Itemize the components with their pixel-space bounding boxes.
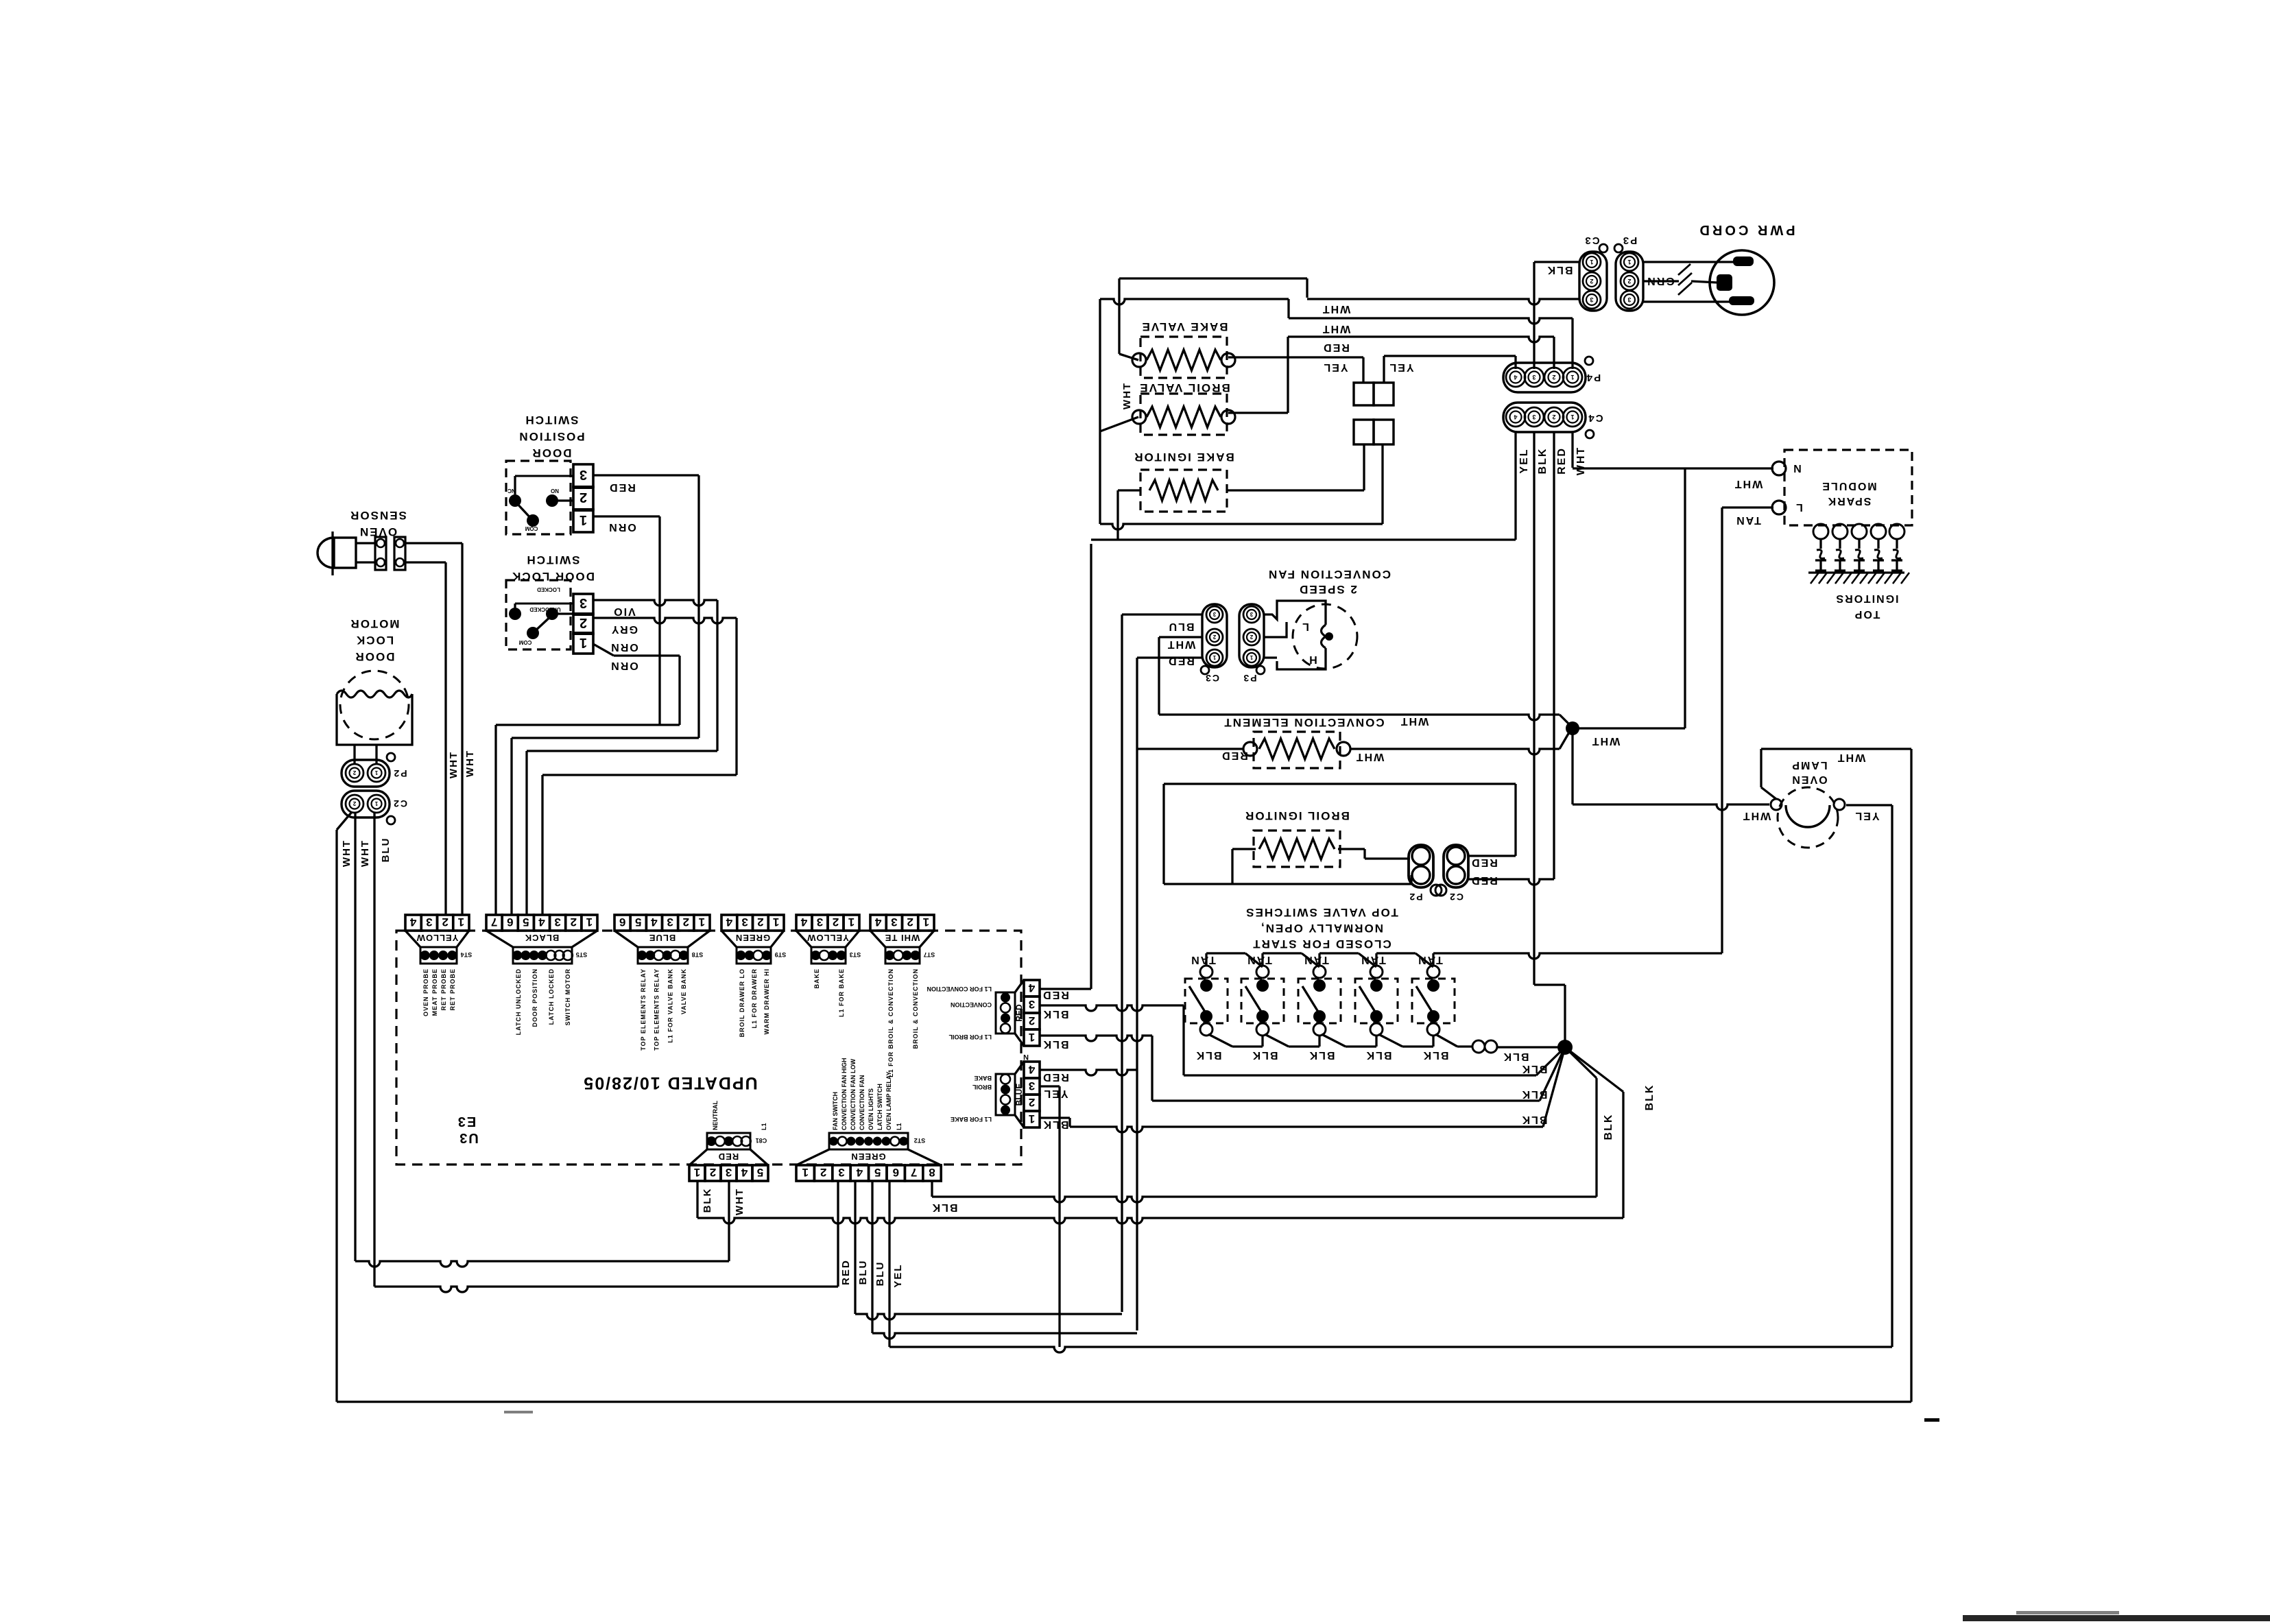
svg-text:TAN: TAN [1190, 954, 1216, 966]
label BLK side1 [1042, 1008, 1069, 1020]
svg-text:3: 3 [1212, 611, 1216, 617]
label RED elem [1221, 750, 1248, 761]
svg-text:GREEN: GREEN [735, 933, 770, 943]
label YEL left [1322, 361, 1348, 373]
svg-text:RED: RED [1042, 989, 1069, 1001]
svg-text:2: 2 [683, 916, 689, 929]
svg-text:2: 2 [1590, 278, 1593, 285]
wire BLUE side pin1 BLK [1040, 1116, 1070, 1119]
node BLK junction [1557, 1040, 1573, 1055]
svg-text:L1 FOR BAKE: L1 FOR BAKE [951, 1116, 992, 1123]
label L [1795, 501, 1803, 513]
label BLK column [1537, 448, 1549, 475]
label YEL side [1042, 1088, 1068, 1099]
label CONVECTION FAN [1267, 568, 1391, 581]
svg-text:RED: RED [1167, 655, 1195, 667]
wire WHT column to spark N [1571, 432, 1573, 468]
label TAN 2 [1246, 954, 1272, 966]
svg-text:5: 5 [757, 1166, 763, 1179]
svg-text:1: 1 [1570, 414, 1574, 420]
label RED C2 top [1470, 857, 1498, 868]
wire GREEN pin8 BLK [931, 1181, 933, 1197]
svg-text:2: 2 [442, 916, 448, 929]
svg-text:MODULE: MODULE [1821, 480, 1876, 492]
label ORN door2a [610, 641, 638, 653]
svg-text:TOP VALVE SWITCHES: TOP VALVE SWITCHES [1245, 906, 1398, 919]
svg-text:3: 3 [1029, 1079, 1035, 1092]
svg-text:LATCH UNLOCKED: LATCH UNLOCKED [515, 968, 522, 1035]
svg-text:DOOR: DOOR [531, 446, 572, 459]
resistor bake ignitor [1149, 480, 1218, 501]
svg-text:ST2: ST2 [914, 1137, 926, 1144]
label BLK j2 [1521, 1088, 1548, 1100]
wire WHT bus to C2 [355, 1261, 729, 1267]
wire RED bus [374, 1287, 838, 1292]
label BROIL VALVE [1138, 381, 1230, 394]
svg-text:WHT: WHT [341, 839, 353, 867]
label RED side2 [1042, 1071, 1069, 1083]
wire WHT bus B (broil valve to P4 pin1) [1099, 299, 1101, 524]
resistor broil ignitor [1259, 839, 1335, 859]
scan artifact dash2 [504, 1411, 533, 1413]
svg-text:GRN: GRN [1646, 275, 1675, 287]
svg-text:1: 1 [580, 512, 587, 527]
svg-text:P4: P4 [1586, 372, 1601, 383]
svg-text:1: 1 [802, 1166, 808, 1179]
svg-text:3: 3 [426, 916, 432, 929]
svg-text:2: 2 [757, 916, 763, 929]
svg-text:U3: U3 [458, 1130, 479, 1145]
door position switch dashed box [506, 461, 571, 534]
svg-text:BLK: BLK [1365, 1049, 1392, 1061]
wire junction BLK 3 [1543, 1047, 1565, 1127]
svg-text:ST4: ST4 [461, 951, 473, 958]
wire C2 BLU [373, 813, 375, 1287]
svg-text:YEL: YEL [1518, 448, 1530, 473]
wire door lock ORN [593, 644, 614, 656]
wire spark riser down [1684, 468, 1686, 728]
svg-text:SENSOR: SENSOR [349, 509, 407, 522]
label C4 [1587, 412, 1603, 424]
svg-text:BLK: BLK [1537, 448, 1549, 475]
wire bottom chain 4 [1378, 1034, 1402, 1047]
svg-text:YELLOW: YELLOW [807, 933, 849, 943]
label VIO [612, 606, 636, 617]
svg-text:N: N [1792, 462, 1802, 474]
wire broil loop bottom [1164, 883, 1411, 885]
wire broil resistor right [1338, 848, 1365, 850]
top valve switch 2 [1241, 979, 1284, 1023]
svg-text:2: 2 [580, 490, 587, 505]
wire C2 WHT 1 [337, 812, 352, 830]
gas valve BAKE dashed box [1140, 337, 1227, 378]
svg-text:RET PROBE: RET PROBE [449, 968, 456, 1011]
wire lamp YEL [1846, 804, 1892, 806]
svg-text:GREEN: GREEN [850, 1151, 885, 1162]
svg-text:BLK: BLK [1503, 1051, 1529, 1062]
wire C3 pin1 BLK to P4 pin3 [1534, 261, 1580, 263]
label BLK side2 [1042, 1038, 1069, 1050]
label WHT fan [1167, 638, 1195, 650]
label BLK [1546, 264, 1573, 276]
svg-text:BLK: BLK [1195, 1049, 1222, 1061]
svg-text:WHT: WHT [1742, 810, 1771, 822]
wire TAN bus [1433, 953, 1722, 959]
svg-text:DOOR: DOOR [355, 650, 395, 663]
connector C4 [1503, 403, 1586, 432]
board connector RED side [1024, 980, 1040, 996]
label WHT vertical at valves [1121, 382, 1133, 409]
resistor broil valve [1147, 407, 1221, 427]
svg-text:C3: C3 [1204, 673, 1219, 684]
svg-text:8: 8 [929, 1166, 935, 1179]
svg-text:PWR CORD: PWR CORD [1697, 222, 1795, 237]
wire BLUE side pin4 RED [1040, 1070, 1137, 1075]
svg-text:4: 4 [409, 916, 416, 929]
svg-text:BLK: BLK [1521, 1063, 1548, 1075]
connector P2 (broil) [1409, 845, 1433, 887]
label E3 U3 [457, 1114, 476, 1129]
wire fan BLU [1122, 613, 1202, 615]
svg-text:C2: C2 [392, 798, 407, 809]
wire sensor WHT 1 [405, 542, 462, 544]
label BLK side3 [1042, 1119, 1069, 1130]
svg-text:BAKE: BAKE [813, 968, 820, 989]
label WHT sensor2 [448, 751, 459, 778]
top ignitor spark gaps [1813, 524, 1828, 539]
svg-text:BLUE: BLUE [649, 933, 676, 943]
svg-text:WHT: WHT [1400, 715, 1429, 727]
wire broil valve right [1228, 411, 1288, 414]
svg-text:NO: NO [551, 488, 559, 494]
wire GREEN pin4 BLU [854, 1181, 856, 1314]
svg-text:NC: NC [507, 488, 516, 494]
label YEL col green [892, 1263, 904, 1287]
label BLU col green2 [874, 1261, 886, 1287]
svg-text:4: 4 [741, 1166, 748, 1179]
svg-text:RED: RED [1556, 447, 1568, 475]
oven sensor probe [331, 532, 333, 575]
svg-text:4: 4 [800, 916, 807, 929]
label OVEN SENSOR [349, 509, 407, 522]
svg-text:3: 3 [891, 916, 897, 929]
label BAKE IGNITOR [1133, 451, 1234, 464]
oven sensor pins [375, 537, 386, 570]
label N [1792, 462, 1802, 474]
svg-text:2: 2 [1029, 1014, 1035, 1027]
svg-text:3: 3 [1532, 374, 1536, 381]
svg-text:2: 2 [1212, 634, 1216, 640]
svg-text:BROIL IGNITOR: BROIL IGNITOR [1244, 809, 1350, 822]
board connector YELLOW 2 [796, 915, 812, 931]
svg-text:RED: RED [1322, 342, 1350, 353]
label YEL column [1518, 448, 1530, 473]
label 2 SPEED [1298, 583, 1357, 596]
svg-text:5: 5 [635, 916, 641, 929]
svg-text:RED: RED [608, 481, 636, 493]
svg-text:3: 3 [667, 916, 673, 929]
svg-text:WARM DRAWER HI: WARM DRAWER HI [763, 968, 770, 1035]
wire C2 WHT 2 [354, 813, 356, 1261]
label WHT sensor1 [464, 750, 476, 777]
label DOOR POSITION SWITCH [524, 414, 578, 427]
svg-text:2: 2 [820, 1166, 826, 1179]
svg-text:TOP ELEMENTS RELAY: TOP ELEMENTS RELAY [640, 968, 647, 1051]
wire junction to lamp [1571, 728, 1573, 804]
wire fan RED [1137, 656, 1202, 658]
svg-text:2: 2 [1627, 278, 1631, 285]
svg-text:CONVECTION: CONVECTION [951, 1001, 992, 1008]
svg-text:3: 3 [838, 1166, 844, 1179]
svg-text:2: 2 [580, 615, 587, 630]
svg-text:1: 1 [586, 916, 593, 929]
connector C3 (fan) [1202, 604, 1227, 667]
label YEL right [1388, 361, 1413, 373]
label WHT bottom [734, 1188, 745, 1215]
wire RED side pin3 BLK [1040, 1005, 1184, 1011]
svg-text:UPDATED 10/28/05: UPDATED 10/28/05 [582, 1073, 757, 1092]
svg-text:TAN: TAN [1417, 954, 1443, 966]
svg-text:LAMP: LAMP [1791, 759, 1827, 771]
svg-text:ST8: ST8 [692, 951, 704, 958]
svg-text:WHT: WHT [464, 750, 476, 777]
label BLK 3 [1309, 1049, 1335, 1061]
svg-text:WHT: WHT [1355, 751, 1384, 763]
board connector BLACK [486, 915, 502, 931]
svg-text:1: 1 [1212, 654, 1216, 660]
label SPARK MODULE [1821, 480, 1876, 492]
svg-text:2: 2 [1029, 1096, 1035, 1109]
wire P3 pin1 to plug [1643, 261, 1736, 263]
label BLK j1 [1521, 1063, 1548, 1075]
svg-text:5: 5 [523, 916, 529, 929]
label C2 motor [392, 798, 407, 809]
svg-text:1: 1 [773, 916, 779, 929]
svg-text:2: 2 [1552, 414, 1555, 420]
svg-text:CONVECTION FAN: CONVECTION FAN [1267, 568, 1391, 581]
label C3 fan [1204, 673, 1219, 684]
wire junction to RED1 bus [1565, 1047, 1623, 1092]
wire bottom chain 1 [1208, 1034, 1232, 1047]
svg-text:VIO: VIO [612, 606, 636, 617]
svg-text:1: 1 [1570, 374, 1574, 381]
bake ignitor dashed box [1140, 470, 1227, 512]
svg-text:BLU: BLU [1168, 621, 1195, 632]
top valve switch 4 [1355, 979, 1398, 1023]
label TAN 5 [1417, 954, 1443, 966]
wire WHT right down [1910, 749, 1912, 1402]
svg-text:CLOSED FOR START: CLOSED FOR START [1252, 938, 1391, 951]
label TAN spark [1735, 514, 1761, 526]
svg-text:CONVECTION FAN HIGH: CONVECTION FAN HIGH [841, 1058, 848, 1130]
svg-text:RED: RED [1014, 1004, 1024, 1022]
svg-text:ST7: ST7 [924, 951, 935, 958]
svg-text:3: 3 [1029, 998, 1035, 1011]
label OVEN LAMP [1791, 759, 1827, 771]
svg-text:2: 2 [907, 916, 913, 929]
wire fuse to P4 pin4 YEL [1383, 356, 1385, 383]
svg-text:1: 1 [1590, 259, 1593, 265]
svg-text:BLK: BLK [1521, 1114, 1548, 1125]
svg-text:2: 2 [1552, 374, 1555, 381]
svg-text:BLACK: BLACK [525, 933, 560, 943]
inline connector pair [1472, 1040, 1485, 1053]
label ORN door1 [608, 521, 636, 533]
svg-text:N: N [1023, 1053, 1029, 1061]
wire diagonal to broil valve left [1100, 417, 1138, 431]
svg-text:3: 3 [1627, 296, 1631, 303]
svg-text:P2: P2 [1408, 892, 1422, 903]
label BLK bottom [702, 1188, 713, 1213]
gas valve BROIL dashed box [1140, 394, 1227, 435]
label TOP IGNITORS [1835, 593, 1898, 604]
label BAKE VALVE [1140, 320, 1228, 333]
terminal N [1772, 462, 1786, 475]
chassis ground symbol [1678, 264, 1690, 275]
svg-text:2: 2 [833, 916, 839, 929]
label L fan [1301, 621, 1309, 632]
svg-text:1: 1 [1250, 654, 1253, 660]
label RED C2 bottom [1470, 874, 1498, 886]
svg-text:C81: C81 [756, 1137, 767, 1144]
svg-text:C4: C4 [1587, 412, 1603, 424]
fan motor dashed circle [1293, 604, 1357, 669]
label DOOR LOCK MOTOR [350, 617, 400, 630]
svg-text:ORN: ORN [610, 660, 638, 671]
svg-text:L1: L1 [761, 1123, 767, 1130]
svg-text:1: 1 [374, 800, 378, 807]
svg-text:WHT: WHT [1837, 752, 1865, 763]
wire GREEN pin3 RED [837, 1181, 839, 1287]
door lock motor [340, 671, 409, 739]
svg-text:H: H [1308, 654, 1317, 665]
svg-text:4: 4 [651, 916, 658, 929]
label H fan [1308, 654, 1317, 665]
svg-text:MEAT PROBE: MEAT PROBE [431, 968, 438, 1016]
svg-text:COM: COM [525, 525, 538, 532]
svg-text:OVEN: OVEN [1791, 774, 1827, 785]
label BLU c2 [380, 837, 392, 863]
svg-text:ORN: ORN [608, 521, 636, 533]
spark module dashed box [1784, 450, 1912, 525]
svg-text:BLK: BLK [1546, 264, 1573, 276]
svg-text:ORN: ORN [610, 641, 638, 653]
svg-text:YEL: YEL [1388, 361, 1413, 373]
svg-text:ST3: ST3 [850, 951, 861, 958]
svg-text:2 SPEED: 2 SPEED [1298, 583, 1357, 596]
svg-text:RED: RED [1470, 874, 1498, 886]
thermal fuse upper [1354, 383, 1374, 405]
label BLK 4 [1365, 1049, 1392, 1061]
board connector YELLOW [405, 915, 421, 931]
svg-text:YEL: YEL [1854, 810, 1879, 822]
label P2 broil [1408, 892, 1422, 903]
svg-text:DOOR POSITION: DOOR POSITION [531, 968, 538, 1027]
wire sensor WHT 2 [405, 561, 446, 563]
connector P4 [1503, 363, 1586, 392]
svg-text:WHT: WHT [1121, 382, 1133, 409]
wire bottom chain 2 [1265, 1034, 1289, 1047]
wire junction to GREEN8 bus [1565, 1047, 1597, 1078]
svg-text:BLK: BLK [1603, 1114, 1614, 1141]
wire broil resistor left [1232, 848, 1256, 850]
wire junction BLK 1 [1536, 1047, 1565, 1075]
svg-text:LATCH SWITCH: LATCH SWITCH [876, 1084, 883, 1130]
thermal fuse lower [1354, 420, 1374, 444]
svg-text:BLK: BLK [1422, 1049, 1449, 1061]
label BLK 1 [1195, 1049, 1222, 1061]
svg-text:P3: P3 [1242, 673, 1256, 684]
label GRN [1646, 275, 1675, 287]
label WHT bus A [1322, 303, 1350, 315]
label WHT elem right bus [1400, 715, 1429, 727]
wire last switch bottom [1435, 1034, 1457, 1047]
svg-text:TOP: TOP [1854, 608, 1880, 620]
svg-text:C2: C2 [1448, 892, 1463, 903]
label WHT spark [1734, 478, 1763, 490]
label BROIL IGNITOR [1244, 809, 1350, 822]
svg-text:1: 1 [1627, 259, 1631, 265]
power cord plug [1710, 250, 1774, 315]
label PWR CORD [1697, 222, 1795, 237]
svg-text:P3: P3 [1622, 235, 1637, 246]
label YEL lamp [1854, 810, 1879, 822]
label BLK vert 2 [1644, 1084, 1656, 1111]
wire door lock GRY [593, 618, 737, 623]
svg-text:COM: COM [518, 639, 531, 645]
svg-text:BLU: BLU [857, 1260, 869, 1285]
wire WHT long bottom bus [337, 1400, 1911, 1402]
svg-text:RED: RED [1042, 1071, 1069, 1083]
svg-text:LOCK: LOCK [355, 634, 394, 647]
terminal L [1772, 501, 1786, 514]
label BLU col green [857, 1260, 869, 1285]
svg-text:TAN: TAN [1246, 954, 1272, 966]
label RED door [608, 481, 636, 493]
svg-text:4: 4 [1028, 1063, 1035, 1076]
svg-text:CONVECTION FAN LOW: CONVECTION FAN LOW [850, 1058, 857, 1130]
svg-text:RED: RED [1221, 750, 1248, 761]
resistor convection element [1259, 739, 1335, 759]
svg-text:TAN: TAN [1303, 954, 1329, 966]
svg-text:OVEN LIGHTS: OVEN LIGHTS [868, 1088, 874, 1130]
wire RED column to broil C2 [1553, 432, 1555, 879]
wire to junction [1497, 1046, 1565, 1048]
svg-text:YEL: YEL [1042, 1088, 1068, 1099]
svg-text:BLK: BLK [1252, 1049, 1278, 1061]
svg-text:TOP ELEMENTS RELAY: TOP ELEMENTS RELAY [654, 968, 660, 1051]
label RED column [1556, 447, 1568, 475]
wire RED side pin1 BLK [1040, 1036, 1152, 1041]
svg-text:L1 FOR VALVE BANK: L1 FOR VALVE BANK [667, 968, 673, 1043]
svg-text:WHT: WHT [359, 839, 371, 867]
connector C2 (broil) [1444, 845, 1468, 887]
door position terminal block [573, 464, 593, 487]
label UPDATED 10/28/05 [582, 1073, 757, 1092]
svg-text:WHT: WHT [1322, 303, 1350, 315]
wire element right WHT [1350, 749, 1560, 754]
label RED bus C [1322, 342, 1350, 353]
wire diagonal to bake valve left [1119, 354, 1138, 360]
svg-text:RED: RED [840, 1259, 852, 1285]
svg-text:BLU: BLU [380, 837, 392, 863]
label WHT column [1575, 446, 1587, 475]
wire GREEN pin5 BLU2 [871, 1181, 873, 1333]
svg-text:7: 7 [491, 916, 497, 929]
svg-text:7: 7 [911, 1166, 917, 1179]
wire door position RED [593, 474, 699, 476]
svg-text:MOTOR: MOTOR [350, 617, 400, 630]
